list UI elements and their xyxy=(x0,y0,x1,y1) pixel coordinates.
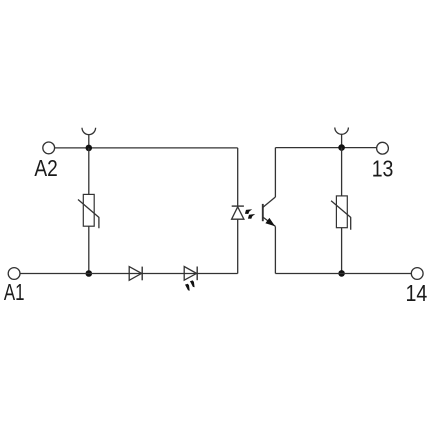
wire varistor top left xyxy=(88,148,90,195)
wire collector up xyxy=(274,148,276,197)
varistor RU1 xyxy=(78,194,99,228)
opto-coupler U1 phototransistor xyxy=(263,197,276,226)
svg-text:13: 13 xyxy=(372,156,394,182)
svg-text:14: 14 xyxy=(406,280,428,306)
wire varistor bottom left xyxy=(88,226,90,273)
wire top-right rail xyxy=(275,147,376,149)
wire bottom-left rail xyxy=(20,273,238,275)
LED V2 xyxy=(184,267,197,281)
wire opto LED top xyxy=(237,148,239,206)
wire socket stub right xyxy=(341,134,343,147)
wire varistor top right xyxy=(341,148,343,196)
wire opto LED bottom xyxy=(237,219,239,273)
svg-text:A2: A2 xyxy=(34,155,57,181)
terminal 13 xyxy=(372,142,394,181)
terminal A2 xyxy=(34,142,57,181)
node junction top-right xyxy=(338,144,345,151)
socket symbol left xyxy=(82,128,96,135)
opto-coupler U1 light arrows xyxy=(245,209,255,219)
wire top-left rail xyxy=(55,147,238,149)
svg-text:A1: A1 xyxy=(4,279,25,305)
LED V2 emission arrows xyxy=(185,280,195,290)
node junction bottom-right xyxy=(338,270,345,277)
node junction top-left xyxy=(86,145,93,152)
terminal 14 xyxy=(406,268,428,306)
wire varistor bottom right xyxy=(341,228,343,274)
wire emitter down xyxy=(274,226,276,273)
terminal A1 xyxy=(4,268,25,305)
node junction bottom-left xyxy=(86,270,93,277)
opto-coupler U1 input LED xyxy=(232,206,244,219)
varistor RU2 xyxy=(331,196,351,230)
wire socket stub left xyxy=(88,135,90,148)
diode V1 xyxy=(129,267,142,281)
socket symbol right xyxy=(335,128,349,135)
wire bottom-right rail xyxy=(275,273,411,275)
